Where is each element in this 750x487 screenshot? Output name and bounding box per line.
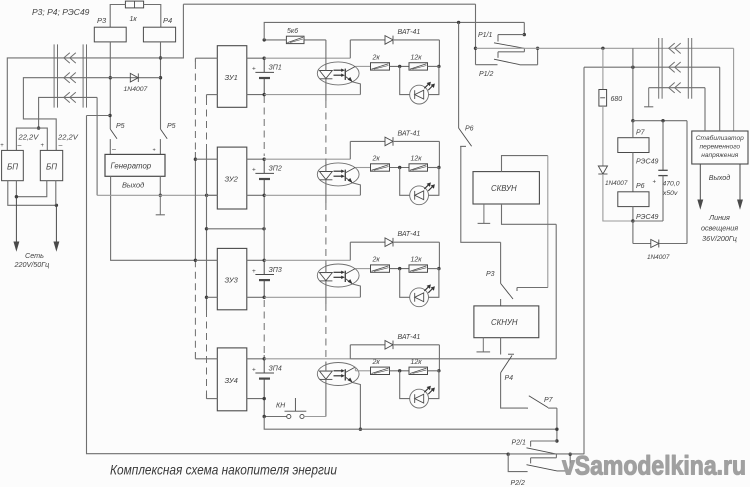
opto U1 arrows [334, 69, 345, 77]
node gen gnd [159, 194, 162, 197]
wire Р4 down [501, 373, 527, 408]
wire ЗУ1 top-left [195, 57, 217, 59]
svg-text:Р5: Р5 [167, 123, 176, 130]
svg-text:+: + [153, 148, 156, 154]
wire collector2 [355, 166, 370, 168]
wire 2к-12к 1 [390, 65, 410, 67]
svg-text:+: + [252, 167, 256, 174]
opto U4 transistor [345, 367, 355, 383]
node bat1 bot [263, 93, 266, 96]
node U-link [37, 126, 40, 129]
wire stab out2 [738, 164, 743, 208]
svg-text:+: + [252, 268, 256, 275]
wire mains drop1 [14, 197, 19, 250]
wire mains drop2 [54, 181, 59, 250]
switch Р4 [501, 338, 514, 382]
node bus2 b3 [205, 296, 208, 299]
svg-text:Р4: Р4 [505, 375, 514, 382]
svg-text:ВАТ-41: ВАТ-41 [398, 29, 421, 36]
wire diode row1 [350, 39, 439, 41]
diode VD ВАТ-41 #1 [385, 29, 420, 44]
svg-text:переменного: переменного [700, 144, 741, 151]
svg-text:Р3; Р4; РЭС49: Р3; Р4; РЭС49 [32, 7, 90, 17]
svg-text:1N4007: 1N4007 [605, 180, 628, 187]
label plus ЗП2 [252, 167, 256, 174]
wire T4 ext [350, 358, 556, 360]
wire led loop1 [400, 66, 439, 94]
node mid3 [398, 267, 401, 270]
title [110, 463, 337, 478]
svg-text:ЗП3: ЗП3 [269, 267, 282, 274]
connector X1 [54, 44, 86, 107]
svg-text:vSamodelkina.ru: vSamodelkina.ru [562, 451, 746, 481]
svg-text:ЗУ1: ЗУ1 [225, 73, 238, 82]
svg-text:Генератор: Генератор [111, 162, 152, 171]
node rail1-x160 [159, 56, 162, 59]
diode VD ВАТ-41 #3 [385, 231, 420, 246]
power supply БП1 [2, 150, 24, 180]
node 12к right2 [437, 166, 440, 169]
svg-text:СКВУН: СКВУН [491, 184, 517, 193]
relay coil Р7r [618, 130, 659, 166]
label 220V/50Гц [14, 260, 50, 269]
opto U1 ellipse [317, 62, 359, 85]
label gen plus [153, 148, 156, 154]
node 5к6 tap [263, 38, 266, 41]
label ЗП1 [269, 65, 282, 72]
wire Р7 down [556, 408, 558, 441]
node Р2 right [569, 453, 572, 456]
link bus2-bus3 [207, 228, 265, 230]
wire diode down1 [438, 40, 440, 67]
charger ЗУ3 box [217, 248, 247, 309]
wire rail2 БП2- [23, 78, 160, 151]
wire 2к-12к 2 [390, 167, 410, 169]
opto U4 arrows [334, 369, 345, 377]
wire 680 chain [602, 48, 604, 89]
svg-text:Р5: Р5 [116, 123, 125, 130]
svg-text:СКНУН: СКНУН [491, 318, 518, 327]
wire y67 line [584, 66, 720, 68]
wire ЗУ4 bot-right [247, 398, 264, 400]
node 12к right3 [437, 267, 440, 270]
svg-text:РЭС49: РЭС49 [636, 159, 658, 166]
diode VD ВАТ-41 #2 [385, 130, 420, 145]
label relay group [32, 7, 90, 17]
svg-text:Р2/1: Р2/1 [512, 440, 527, 447]
node y67 x633 [631, 66, 634, 69]
svg-text:5к6: 5к6 [287, 28, 298, 35]
generator box [105, 154, 165, 176]
label БП2 minus [59, 142, 63, 149]
wire Р3 to box [500, 299, 502, 306]
node emitter4 rail [359, 428, 362, 431]
wire ЗУ3 bot-right [247, 296, 264, 298]
wire Р3 coil down [109, 42, 111, 129]
svg-text:+: + [252, 366, 256, 373]
node 12к right1 [437, 65, 440, 68]
svg-text:1N4007: 1N4007 [647, 254, 670, 261]
diode VD ВАТ-41 #4 [385, 334, 420, 349]
relay coil Р4 [143, 16, 175, 42]
wire emitter3 [353, 284, 361, 297]
node rail1 end [555, 428, 558, 431]
bus battery x264 [263, 96, 265, 359]
node Р2 feed [555, 439, 558, 442]
svg-text:+: + [252, 66, 256, 73]
wire diode down3 [438, 242, 440, 268]
wire emitter2 [353, 183, 361, 195]
wire rail48 drop [733, 48, 735, 131]
svg-text:х50v: х50v [662, 190, 678, 197]
svg-text:–: – [112, 146, 116, 153]
wire ЗУ4 bot-left [207, 398, 218, 400]
wire x633 top [631, 48, 634, 122]
svg-text:Р7: Р7 [544, 397, 554, 404]
bus bottom(ЗУ-) x206.5 [206, 95, 208, 399]
opto U3 arrows [334, 271, 345, 279]
wire y115 link [87, 115, 111, 117]
node mains b [55, 204, 58, 207]
resistor 12к #4 [409, 359, 428, 375]
charger ЗУ4 box [217, 348, 247, 411]
wire Р4 coil down [160, 42, 162, 129]
switch Р1/1 [478, 22, 526, 48]
svg-text:ВАТ-41: ВАТ-41 [398, 130, 421, 137]
wire y87 gnd line [649, 87, 705, 89]
battery ЗП3 [255, 260, 274, 297]
svg-text:12к: 12к [411, 54, 423, 61]
node bus2 y195 [205, 194, 208, 197]
svg-text:22,2V: 22,2V [18, 133, 40, 142]
svg-text:БП: БП [46, 163, 57, 172]
node Р2 left [507, 453, 510, 456]
label plus ЗП3 [252, 268, 256, 275]
block СКНУН [474, 306, 539, 338]
svg-text:ЗУ3: ЗУ3 [225, 276, 239, 285]
power supply БП2 [40, 150, 62, 180]
wire ЗУ2 top-right [247, 158, 264, 160]
svg-text:1N4007: 1N4007 [124, 86, 148, 93]
wire 5к6 left [264, 39, 286, 41]
wire ЗУ3 top-left [195, 259, 217, 261]
label БП1 minus [18, 142, 22, 149]
svg-text:2к: 2к [372, 359, 381, 366]
wire mid net down [96, 97, 98, 195]
svg-text:Р6: Р6 [636, 183, 645, 190]
relay coil Р6r [618, 183, 659, 221]
wire stab out1 [698, 164, 703, 208]
wire diode down [603, 174, 633, 221]
wire led loop3 [400, 269, 439, 298]
diode VD1 1N4007 [124, 73, 148, 93]
label 22,2V #1 [18, 133, 40, 142]
bus top(ЗУ+) x195 [194, 58, 196, 359]
svg-text:12к: 12к [411, 257, 423, 264]
node КН left [263, 415, 266, 418]
label БП2 plus [41, 143, 45, 149]
svg-text:ЗП1: ЗП1 [269, 65, 282, 72]
switch Р5 left [110, 123, 124, 139]
wire led loop2 [400, 168, 439, 196]
switch Р6 [459, 126, 474, 147]
node bat2 top [263, 158, 266, 161]
svg-text:Р2/2: Р2/2 [511, 480, 526, 487]
label Выход stab [709, 173, 731, 182]
node cap top [661, 119, 664, 122]
node rail2-x110 [109, 76, 112, 79]
ground СКВУН [478, 204, 491, 223]
wire Р7r leads [632, 121, 634, 192]
wire Р6 down [461, 146, 501, 242]
node bat3 bot [263, 296, 266, 299]
wire top rail A [183, 3, 475, 5]
charger ЗУ1 box [217, 46, 247, 108]
wire riser3 [349, 242, 351, 260]
battery ЗП1 [255, 58, 274, 94]
opto U4 led [320, 371, 333, 379]
wire mains БП1R-БП2L [16, 181, 46, 197]
opto U2 ellipse [317, 163, 359, 186]
switch Р1/2 [476, 48, 538, 78]
svg-text:Линия: Линия [708, 213, 730, 222]
relay coil Р3 [94, 16, 126, 42]
svg-text:Р3: Р3 [97, 16, 107, 25]
wire 12к right1 [428, 65, 440, 67]
wire rail y195 [97, 194, 217, 196]
wire stab in1 [704, 88, 706, 131]
resistor R 680 [599, 90, 622, 107]
svg-text:+: + [41, 143, 45, 149]
wire x584 [583, 67, 585, 454]
opto U3 transistor [345, 269, 355, 285]
wire КН row [264, 416, 287, 418]
node mid2 [398, 166, 401, 169]
wire ЗУ1 bot grey [264, 94, 360, 96]
label освещения [701, 224, 738, 233]
block СКВУН [473, 172, 539, 204]
svg-text:2к: 2к [372, 54, 381, 61]
switch Р3 [486, 242, 548, 299]
wire СКВУН loop [502, 156, 548, 172]
opto U1 led [320, 71, 333, 79]
wire 12к right2 [428, 167, 440, 169]
label ЗП3 [269, 267, 282, 274]
wire ЗУ3 top grey [264, 259, 350, 261]
wire ЗУ4 top grey [264, 358, 350, 360]
wire Р6 line [458, 22, 460, 128]
battery ЗП4 [255, 359, 274, 417]
node bat3 top [263, 259, 266, 262]
opto U1 transistor [345, 66, 355, 82]
switch Р2/1 [512, 440, 558, 455]
svg-text:ЗП4: ЗП4 [269, 365, 282, 372]
svg-text:ВАТ-41: ВАТ-41 [398, 334, 421, 341]
svg-text:Р4: Р4 [163, 16, 172, 25]
wire net-A down [475, 4, 477, 64]
node bat1 top [263, 57, 266, 60]
wire led loop4 [400, 371, 439, 399]
wire ЗУ1 top-right [247, 57, 264, 59]
diode VD2 1N4007 [598, 166, 628, 187]
node mid1 [398, 65, 401, 68]
svg-text:напряжения: напряжения [701, 152, 738, 159]
wire gen lead- [109, 139, 111, 154]
node mid4 [398, 369, 401, 372]
node bat4 bot [263, 397, 266, 400]
resistor 12к #1 [409, 54, 428, 70]
node Pv right [536, 47, 539, 50]
label 22,2V #2 [57, 133, 79, 142]
wire mains БП1L [8, 181, 57, 206]
svg-text:–: – [18, 142, 22, 149]
wire ЗУ3 top-right [247, 259, 264, 261]
svg-text:–: – [59, 142, 63, 149]
svg-text:Комплексная схема накопителя э: Комплексная схема накопителя энергии [110, 463, 337, 478]
resistor R1 5к6 [286, 28, 304, 44]
svg-text:220V/50Гц: 220V/50Гц [14, 260, 50, 269]
svg-text:12к: 12к [411, 156, 423, 163]
opto U2 transistor [345, 167, 355, 183]
svg-text:680: 680 [611, 96, 623, 103]
watermark vSamodelkina.ru [562, 451, 746, 481]
svg-text:Р3: Р3 [486, 271, 495, 278]
svg-text:Выход: Выход [122, 181, 144, 190]
node Pv left [474, 47, 477, 50]
resistor 2к #3 [371, 257, 390, 273]
wire emitter1 [353, 82, 361, 95]
wire СКВУН bottom [502, 204, 557, 224]
wire diode down4 [438, 345, 440, 371]
label ЗП4 [269, 365, 282, 372]
wire ЗУ3 bot-left [207, 296, 218, 298]
opto U4 ellipse [317, 363, 359, 386]
wire 2к-12к 3 [390, 268, 410, 270]
opto U3 led [320, 273, 333, 281]
svg-text:Выход: Выход [709, 173, 731, 182]
node bus3 link [262, 227, 265, 230]
wire 2к-12к 4 [390, 370, 410, 372]
svg-text:ЗУ4: ЗУ4 [225, 376, 238, 385]
node rail2-x160 [159, 76, 162, 79]
wire 1к to Р4 coil [144, 5, 161, 28]
svg-text:2к: 2к [372, 156, 381, 163]
wire 680-diode [602, 106, 604, 166]
svg-text:12к: 12к [411, 359, 423, 366]
wire bottom rail2 right [508, 453, 584, 455]
node mains a [15, 195, 18, 198]
wire 5к6 feed [304, 39, 326, 41]
svg-text:освещения: освещения [701, 224, 738, 233]
wire riser4 [349, 345, 351, 359]
wire rail1 БП1+ [7, 4, 183, 150]
wire diode row2 [350, 140, 439, 142]
label Сеть [25, 251, 44, 260]
svg-text:ЗП2: ЗП2 [269, 166, 282, 173]
svg-text:22,2V: 22,2V [57, 133, 79, 142]
wire rail48 [476, 47, 734, 49]
wire enclosure left-bottom [87, 116, 509, 454]
wire riser2 [349, 141, 351, 159]
label plus ЗП1 [252, 66, 256, 73]
node x110-y115 [108, 114, 111, 117]
wire ЗУ1 bot-left [207, 94, 218, 96]
wire U-link БП1- БП2+ [16, 128, 47, 150]
wire ЗУ2 top-left [195, 158, 217, 160]
resistor R 1к [125, 1, 143, 23]
wire ЗУ2 bot grey [264, 194, 360, 196]
svg-text:БП: БП [7, 163, 18, 172]
svg-text:Р6: Р6 [465, 126, 474, 133]
node bat2 bot [263, 194, 266, 197]
wire x556 down [555, 224, 557, 358]
wire emitter4 [353, 383, 361, 430]
wire ЗУ1 top grey [264, 57, 350, 59]
node bus1 t3 [194, 259, 197, 262]
svg-text:1к: 1к [130, 16, 138, 23]
opto U2 led [320, 172, 333, 180]
svg-text:Р1/2: Р1/2 [479, 71, 494, 78]
opto feed bus [325, 40, 327, 417]
wire stab in2 [719, 67, 721, 131]
wire diode down2 [438, 141, 440, 167]
svg-text:Р7: Р7 [636, 130, 646, 137]
resistor 12к #2 [409, 156, 428, 172]
battery ЗП2 [255, 159, 274, 195]
stabilizer box [692, 131, 748, 164]
svg-text:КН: КН [276, 403, 286, 410]
wire rail3 mid [39, 97, 98, 128]
wire right loop [633, 121, 687, 244]
wire ЗУ2 bot-left [207, 194, 218, 196]
wire ЗУ2 top grey [264, 158, 350, 160]
resistor 2к #2 [371, 156, 390, 172]
capacitor C1 470,0 [633, 121, 680, 221]
opto U2 arrows [334, 170, 345, 178]
label ЗП2 [269, 166, 282, 173]
wire КН right [304, 416, 326, 418]
resistor 2к #1 [371, 54, 390, 70]
diode VD3 1N4007 [647, 240, 670, 262]
resistor 2к #4 [371, 359, 390, 375]
svg-text:Р1/1: Р1/1 [478, 32, 493, 39]
ground right [644, 88, 653, 107]
svg-text:+: + [0, 143, 4, 149]
charger ЗУ2 box [217, 147, 247, 209]
wire ЗУ3 bot grey [264, 296, 360, 298]
led HL2 [410, 182, 435, 204]
wire collector3 [355, 268, 370, 270]
svg-text:36V/200Гц: 36V/200Гц [702, 234, 737, 243]
led HL1 [410, 82, 435, 104]
svg-text:2к: 2к [372, 257, 381, 264]
wire gen gnd [159, 176, 161, 195]
wire ЗУ4 top-left [195, 358, 217, 360]
svg-text:Стабилизатор: Стабилизатор [696, 134, 744, 142]
wire gen lead+ [159, 139, 161, 154]
svg-text:+: + [653, 180, 657, 186]
wire bottom rail1 [264, 417, 557, 430]
opto U3 ellipse [317, 264, 359, 287]
wire collector1 [355, 65, 370, 67]
ground gen [156, 195, 165, 215]
svg-text:Сеть: Сеть [25, 251, 44, 260]
wire x547 grey [547, 156, 549, 288]
wire Р6r down [631, 207, 634, 244]
switch Р2/2 [508, 454, 570, 487]
wire bat rail up [264, 22, 524, 40]
wire ЗУ4 top-right [247, 358, 264, 360]
